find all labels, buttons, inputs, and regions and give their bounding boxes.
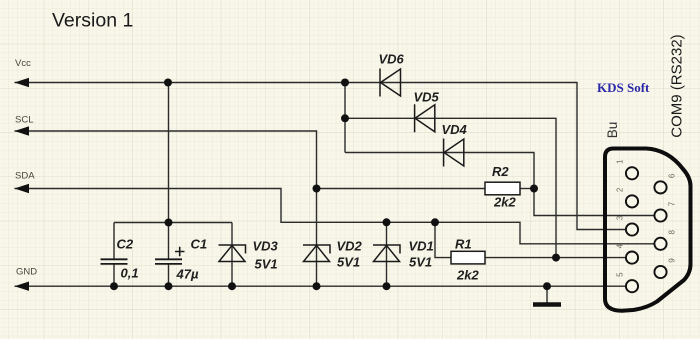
svg-text:1: 1 xyxy=(616,159,625,164)
junction GND / ground symbol xyxy=(543,282,551,290)
junction VD5 row xyxy=(341,114,349,122)
svg-text:SCL: SCL xyxy=(15,114,33,125)
wire SDA rail to DB9 pin 8 xyxy=(15,189,661,244)
svg-text:VD6: VD6 xyxy=(379,52,405,67)
svg-text:Version 1: Version 1 xyxy=(52,10,133,32)
pin 1 xyxy=(626,167,638,179)
svg-text:5V1: 5V1 xyxy=(255,257,278,272)
junction Vcc / C1 branch xyxy=(164,79,172,87)
svg-text:9: 9 xyxy=(668,258,677,263)
capacitor C1 xyxy=(155,259,182,264)
wire VD4 row through node B to DB9 pin 7 xyxy=(345,153,661,216)
svg-text:47µ: 47µ xyxy=(176,267,199,282)
svg-text:Bu: Bu xyxy=(605,122,620,139)
diode VD6 xyxy=(380,69,401,97)
pin 5 xyxy=(626,280,638,292)
pin 4 xyxy=(626,252,638,264)
zener diode VD2 xyxy=(303,245,330,262)
wire GND rail to DB9 pin 5 xyxy=(15,285,633,287)
svg-text:SDA: SDA xyxy=(15,171,35,182)
polarity plus sign of C1 xyxy=(175,247,185,256)
svg-text:0,1: 0,1 xyxy=(121,266,139,281)
junction SDA / VD1 xyxy=(383,218,391,226)
pin 6 xyxy=(654,181,666,193)
svg-text:VD3: VD3 xyxy=(253,239,279,254)
arrow SDA xyxy=(15,184,30,193)
svg-text:2: 2 xyxy=(616,187,625,192)
pin 3 xyxy=(626,223,638,235)
wire node A to R2 left lead xyxy=(317,188,486,190)
wire Vcc rail to DB9 pin 3 xyxy=(15,83,633,230)
wire Vcc junction down to diode rows xyxy=(344,83,346,153)
zener diode VD3 xyxy=(219,245,246,262)
junction R1 right / pin4 wire xyxy=(552,254,560,262)
wire SCL rail down to node A xyxy=(15,131,317,189)
pin 8 xyxy=(654,238,666,250)
svg-text:8: 8 xyxy=(668,230,677,235)
svg-text:5: 5 xyxy=(616,272,625,277)
svg-text:7: 7 xyxy=(668,201,677,206)
junction GND / VD3 xyxy=(228,282,236,290)
svg-text:5V1: 5V1 xyxy=(337,255,360,270)
pin 9 xyxy=(654,266,666,278)
arrow GND xyxy=(15,282,30,291)
node A: SCL / VD2 / R2 xyxy=(313,185,321,193)
svg-text:COM9 (RS232): COM9 (RS232) xyxy=(669,34,686,137)
svg-text:C1: C1 xyxy=(191,237,208,252)
svg-text:VD5: VD5 xyxy=(414,90,440,105)
wire VD2 branch from node A to GND xyxy=(316,189,318,287)
wire VD1 branch xyxy=(386,222,388,286)
diode VD5 xyxy=(415,104,435,132)
junction SDA / R1 branch xyxy=(431,218,439,226)
pin 7 xyxy=(654,209,666,221)
junction GND / VD1 xyxy=(383,282,391,290)
junction cap top rail xyxy=(165,219,173,227)
resistor R2 xyxy=(485,182,520,195)
svg-text:2k2: 2k2 xyxy=(456,268,479,283)
svg-text:R1: R1 xyxy=(455,237,472,252)
svg-text:3: 3 xyxy=(616,215,625,220)
wire ground stub xyxy=(546,286,548,303)
connector Bu DB9 outline xyxy=(605,149,691,311)
arrow SCL xyxy=(15,126,30,135)
svg-text:5V1: 5V1 xyxy=(409,255,432,270)
arrow Vcc xyxy=(15,78,30,87)
wire C1 leads xyxy=(168,223,170,287)
ground xyxy=(533,302,561,307)
capacitor C2 xyxy=(101,259,128,264)
junction Vcc / diode rows xyxy=(341,79,349,87)
svg-text:C2: C2 xyxy=(117,237,134,252)
wire R1 branch and leads xyxy=(435,222,556,257)
junction GND / C1 xyxy=(165,282,173,290)
zener diode VD1 xyxy=(373,245,400,262)
junction GND / C2 xyxy=(110,282,118,290)
svg-text:R2: R2 xyxy=(492,164,509,179)
svg-text:Vcc: Vcc xyxy=(15,58,31,69)
svg-text:4: 4 xyxy=(616,243,625,248)
svg-text:KDS Soft: KDS Soft xyxy=(597,80,650,95)
svg-text:VD1: VD1 xyxy=(409,239,434,254)
wire VD3 branch xyxy=(231,223,233,287)
wire Vcc down to capacitor top rail xyxy=(168,83,170,223)
node B: R2 right / pin7 wire xyxy=(530,185,538,193)
svg-text:6: 6 xyxy=(668,173,677,178)
wire capacitor top rail xyxy=(114,222,232,224)
svg-text:VD4: VD4 xyxy=(442,122,468,137)
wire C2 leads xyxy=(113,223,115,287)
junction GND / VD2 xyxy=(313,282,321,290)
pin 2 xyxy=(626,195,638,207)
svg-text:GND: GND xyxy=(16,267,37,278)
wire R2 right lead to node B xyxy=(520,188,534,190)
diode VD4 xyxy=(444,139,464,167)
svg-text:VD2: VD2 xyxy=(337,239,363,254)
resistor R1 xyxy=(451,251,485,264)
wire VD5 row to DB9 pin 4 xyxy=(345,118,632,257)
svg-text:2k2: 2k2 xyxy=(493,195,516,210)
